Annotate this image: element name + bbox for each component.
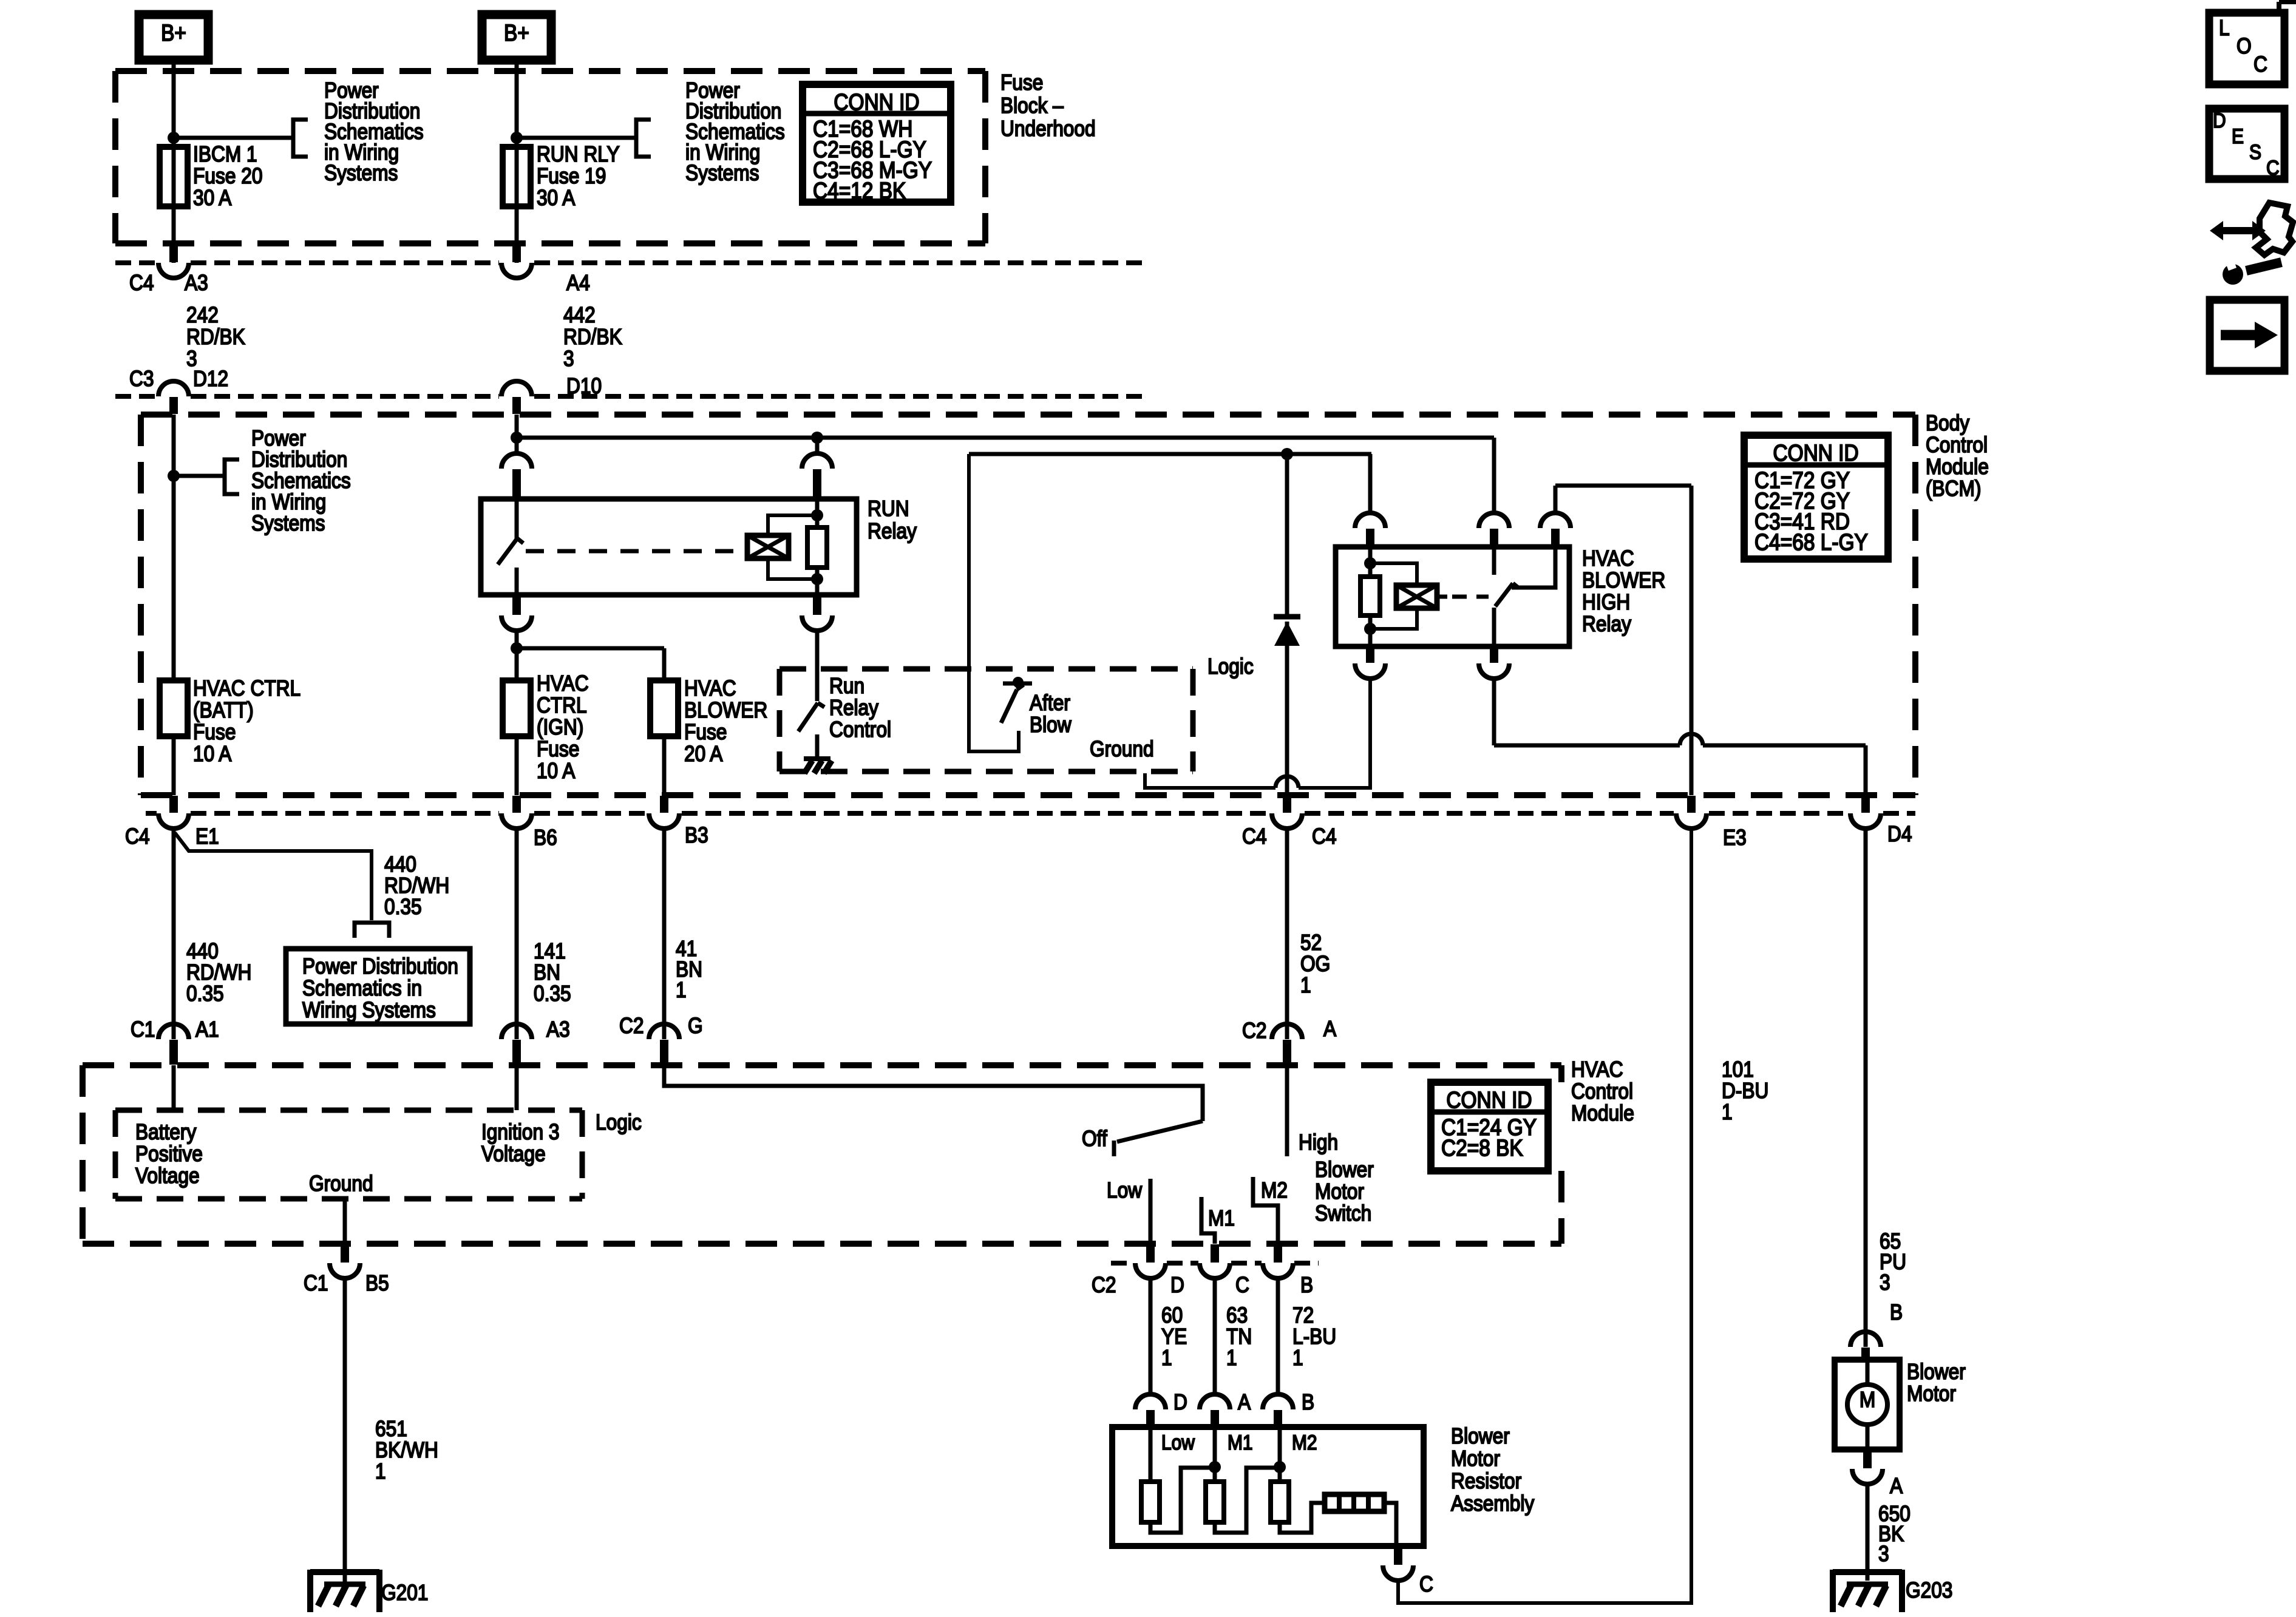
svg-text:HVAC CTRL: HVAC CTRL — [193, 676, 301, 700]
svg-text:C2: C2 — [1242, 1019, 1266, 1043]
svg-text:D4: D4 — [1887, 822, 1912, 846]
svg-text:Module: Module — [1571, 1101, 1634, 1125]
svg-text:Fuse: Fuse — [537, 737, 579, 761]
svg-text:G203: G203 — [1906, 1578, 1952, 1602]
svg-text:Fuse 20: Fuse 20 — [193, 164, 262, 188]
svg-text:B3: B3 — [685, 823, 708, 847]
svg-text:C: C — [2254, 52, 2267, 76]
svg-text:Resistor: Resistor — [1451, 1469, 1521, 1493]
svg-text:HVAC: HVAC — [684, 676, 736, 700]
svg-text:IBCM 1: IBCM 1 — [193, 142, 257, 166]
svg-text:Voltage: Voltage — [481, 1142, 546, 1166]
svg-text:C4=12 BK: C4=12 BK — [813, 178, 906, 203]
svg-text:Fuse: Fuse — [1000, 70, 1043, 95]
svg-text:After: After — [1030, 691, 1070, 715]
svg-text:M1: M1 — [1208, 1206, 1235, 1230]
svg-text:Motor: Motor — [1315, 1179, 1364, 1204]
svg-text:Block –: Block – — [1000, 93, 1064, 118]
svg-text:C2: C2 — [619, 1014, 644, 1038]
svg-text:30 A: 30 A — [193, 186, 232, 210]
svg-text:RUN RLY: RUN RLY — [537, 142, 620, 166]
svg-text:Assembly: Assembly — [1451, 1491, 1534, 1516]
svg-text:Wiring Systems: Wiring Systems — [302, 998, 436, 1022]
svg-text:Control: Control — [829, 717, 891, 742]
svg-text:A1: A1 — [195, 1017, 219, 1042]
svg-text:Voltage: Voltage — [135, 1164, 200, 1188]
svg-text:Fuse 19: Fuse 19 — [537, 164, 606, 188]
svg-text:(BCM): (BCM) — [1926, 476, 1981, 501]
svg-text:A4: A4 — [566, 271, 590, 295]
svg-text:Module: Module — [1926, 455, 1989, 479]
svg-text:Control: Control — [1926, 433, 1988, 457]
svg-text:B+: B+ — [504, 20, 529, 46]
svg-text:B+: B+ — [161, 20, 186, 46]
svg-text:B: B — [1300, 1273, 1313, 1297]
svg-text:RD/BK: RD/BK — [186, 325, 245, 349]
svg-text:B6: B6 — [534, 825, 557, 850]
svg-text:3: 3 — [563, 347, 574, 371]
svg-text:A: A — [1238, 1390, 1251, 1414]
svg-text:Systems: Systems — [324, 161, 398, 185]
svg-text:Low: Low — [1161, 1431, 1195, 1454]
svg-text:Switch: Switch — [1315, 1201, 1371, 1225]
svg-text:Relay: Relay — [868, 519, 917, 543]
svg-text:A: A — [1890, 1474, 1903, 1498]
svg-text:Relay: Relay — [1582, 612, 1631, 636]
svg-text:D12: D12 — [193, 367, 228, 391]
svg-text:CONN ID: CONN ID — [1773, 440, 1858, 466]
svg-text:G201: G201 — [381, 1581, 428, 1605]
svg-text:0.35: 0.35 — [186, 981, 224, 1006]
svg-text:C4: C4 — [1242, 824, 1266, 849]
svg-text:1: 1 — [1722, 1100, 1733, 1124]
svg-text:E: E — [2232, 124, 2244, 147]
svg-text:Blow: Blow — [1030, 713, 1072, 737]
svg-text:C4=68 L-GY: C4=68 L-GY — [1754, 529, 1868, 555]
svg-text:C4: C4 — [129, 271, 154, 295]
svg-text:C: C — [2266, 156, 2280, 179]
svg-text:C4: C4 — [1312, 824, 1336, 849]
svg-text:3: 3 — [1880, 1270, 1890, 1295]
svg-text:B: B — [1890, 1300, 1903, 1324]
svg-text:Power Distribution: Power Distribution — [302, 954, 458, 978]
svg-text:3: 3 — [1878, 1542, 1889, 1566]
svg-text:Blower: Blower — [1451, 1424, 1510, 1448]
svg-text:E3: E3 — [1723, 825, 1747, 850]
svg-text:L: L — [2219, 16, 2230, 40]
svg-text:C1: C1 — [304, 1271, 328, 1295]
svg-text:10 A: 10 A — [193, 742, 232, 766]
svg-text:B: B — [1302, 1390, 1314, 1414]
svg-text:(BATT): (BATT) — [193, 698, 254, 722]
svg-text:C: C — [1235, 1273, 1249, 1297]
svg-text:30 A: 30 A — [537, 186, 576, 210]
svg-text:Low: Low — [1107, 1178, 1143, 1202]
svg-text:Motor: Motor — [1451, 1446, 1500, 1471]
svg-text:C: C — [1419, 1572, 1433, 1596]
svg-text:Battery: Battery — [135, 1120, 196, 1144]
svg-text:D: D — [2213, 109, 2226, 132]
svg-text:0.35: 0.35 — [384, 895, 422, 919]
svg-text:Blower: Blower — [1907, 1360, 1966, 1384]
svg-text:M2: M2 — [1261, 1178, 1288, 1202]
svg-text:242: 242 — [186, 303, 219, 327]
svg-text:Blower: Blower — [1315, 1158, 1374, 1182]
svg-text:Fuse: Fuse — [684, 720, 727, 744]
svg-text:M: M — [1860, 1388, 1875, 1412]
svg-text:1: 1 — [375, 1459, 386, 1483]
svg-text:BLOWER: BLOWER — [1582, 568, 1665, 592]
svg-text:High: High — [1299, 1130, 1338, 1154]
svg-text:20 A: 20 A — [684, 742, 723, 766]
svg-text:E1: E1 — [195, 824, 219, 849]
svg-text:C4: C4 — [125, 824, 149, 849]
svg-text:C3: C3 — [129, 367, 154, 391]
svg-text:Systems: Systems — [685, 161, 759, 185]
svg-text:1: 1 — [1292, 1346, 1303, 1370]
svg-text:B5: B5 — [365, 1271, 389, 1295]
svg-text:CTRL: CTRL — [537, 693, 587, 717]
svg-text:CONN ID: CONN ID — [1446, 1087, 1532, 1113]
svg-text:Logic: Logic — [1207, 654, 1254, 679]
svg-text:G: G — [688, 1014, 703, 1038]
svg-text:Underhood: Underhood — [1000, 117, 1096, 141]
svg-text:Ground: Ground — [309, 1171, 373, 1196]
svg-text:Schematics in: Schematics in — [302, 976, 422, 1000]
svg-text:Run: Run — [829, 674, 864, 698]
svg-text:Ground: Ground — [1090, 737, 1154, 761]
svg-text:CONN ID: CONN ID — [834, 89, 919, 115]
svg-text:RUN: RUN — [868, 497, 909, 521]
svg-text:1: 1 — [1226, 1346, 1237, 1370]
svg-text:Body: Body — [1926, 411, 1969, 435]
svg-text:BLOWER: BLOWER — [684, 698, 767, 722]
svg-text:Logic: Logic — [596, 1110, 642, 1134]
svg-text:D: D — [1170, 1273, 1184, 1297]
svg-text:D: D — [1173, 1390, 1187, 1414]
svg-text:A: A — [1323, 1017, 1336, 1041]
svg-text:0.35: 0.35 — [534, 981, 571, 1006]
svg-text:A3: A3 — [185, 271, 208, 295]
svg-text:1: 1 — [676, 978, 687, 1002]
svg-text:Systems: Systems — [251, 511, 325, 535]
svg-text:A3: A3 — [546, 1017, 570, 1042]
svg-text:M1: M1 — [1228, 1431, 1253, 1454]
svg-text:C2: C2 — [1092, 1273, 1116, 1297]
svg-text:Control: Control — [1571, 1079, 1633, 1103]
svg-text:M2: M2 — [1292, 1431, 1317, 1454]
svg-text:HIGH: HIGH — [1582, 590, 1630, 614]
svg-text:1: 1 — [1300, 973, 1311, 997]
svg-text:1: 1 — [1161, 1346, 1172, 1370]
svg-text:HVAC: HVAC — [537, 671, 589, 696]
svg-text:Positive: Positive — [135, 1142, 203, 1166]
svg-text:Motor: Motor — [1907, 1381, 1956, 1406]
svg-text:HVAC: HVAC — [1582, 546, 1634, 571]
svg-text:S: S — [2249, 140, 2261, 163]
svg-text:RD/BK: RD/BK — [563, 325, 622, 349]
svg-text:C2=8 BK: C2=8 BK — [1441, 1135, 1523, 1161]
svg-text:Relay: Relay — [829, 696, 878, 720]
svg-text:Off: Off — [1082, 1127, 1107, 1151]
svg-text:Fuse: Fuse — [193, 720, 236, 744]
svg-text:O: O — [2237, 34, 2252, 58]
svg-text:C1: C1 — [131, 1017, 155, 1042]
svg-text:(IGN): (IGN) — [537, 715, 583, 739]
svg-text:Ignition 3: Ignition 3 — [481, 1120, 560, 1144]
svg-text:10 A: 10 A — [537, 759, 576, 783]
svg-text:442: 442 — [563, 303, 596, 327]
svg-text:HVAC: HVAC — [1571, 1057, 1623, 1082]
